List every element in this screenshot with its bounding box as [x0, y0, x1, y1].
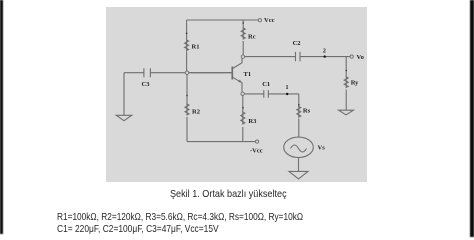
- caption: [170, 188, 287, 200]
- resistor R3: [241, 112, 245, 124]
- transistor T1: [189, 58, 242, 92]
- wire Rc column: [242, 20, 244, 55]
- wire emitter row: [244, 93, 299, 95]
- capacitor C2: [296, 52, 301, 61]
- source Vs: [284, 137, 314, 157]
- pin dot R2: [186, 95, 188, 97]
- terminal Vo: [350, 55, 353, 58]
- wire R2 column: [186, 74, 188, 141]
- wire Vo drop: [345, 57, 347, 110]
- svg-text:R2: R2: [192, 109, 200, 116]
- resistor R1: [185, 40, 189, 51]
- resistor Rc: [241, 28, 245, 39]
- ground (Vs): [289, 171, 308, 179]
- node emitter junction: [241, 92, 244, 95]
- svg-text:R1: R1: [192, 44, 200, 51]
- svg-text:Rc: Rc: [248, 34, 256, 41]
- left page border bar: [0, 0, 3, 234]
- terminal -Vcc: [256, 140, 259, 143]
- resistor R2: [185, 104, 189, 115]
- node 2: [324, 55, 326, 57]
- svg-text:C3: C3: [142, 81, 151, 88]
- node 1: [286, 93, 288, 95]
- wire Vs ground drop: [298, 158, 300, 172]
- svg-text:C1: C1: [262, 81, 270, 88]
- wire top rail: [187, 19, 259, 21]
- svg-text:Vs: Vs: [318, 145, 326, 152]
- resistor Ry: [344, 77, 348, 88]
- resistor Rs: [297, 107, 301, 118]
- svg-text:Rs: Rs: [303, 108, 311, 115]
- svg-text:-Vcc: -Vcc: [250, 148, 263, 155]
- wire C3 ground drop: [123, 73, 125, 116]
- svg-text:2: 2: [323, 49, 326, 55]
- wire R3 column: [242, 95, 244, 141]
- values line 1: [57, 211, 303, 223]
- wire R1 column: [186, 20, 188, 71]
- node collector junction: [241, 55, 244, 58]
- svg-text:R3: R3: [248, 118, 257, 125]
- terminal Vcc: [258, 19, 261, 22]
- pin dot Ry: [345, 70, 347, 72]
- svg-text:1: 1: [286, 85, 289, 91]
- ground (C3): [116, 115, 131, 120]
- wire Rs column: [298, 94, 300, 137]
- pin dot Rs: [298, 104, 300, 106]
- wire base row: [124, 72, 232, 74]
- schematic grey background: [106, 7, 367, 182]
- values line 2: [57, 223, 219, 235]
- svg-text:Vcc: Vcc: [264, 17, 275, 24]
- ground (Ry): [339, 110, 354, 115]
- wire bottom rail to -Vcc: [187, 141, 256, 143]
- node base junction: [185, 71, 188, 74]
- wire collector row: [245, 56, 351, 58]
- right page border bar: [470, 0, 474, 237]
- svg-text:Vo: Vo: [357, 54, 364, 61]
- capacitor C1: [264, 90, 269, 98]
- svg-text:C2: C2: [293, 40, 301, 47]
- pin dot R3: [242, 107, 244, 109]
- svg-text:Ry: Ry: [351, 80, 359, 87]
- svg-text:T1: T1: [244, 71, 252, 78]
- pin dot Rc: [242, 22, 244, 24]
- capacitor C3: [144, 68, 151, 77]
- pin dot R1: [186, 33, 188, 35]
